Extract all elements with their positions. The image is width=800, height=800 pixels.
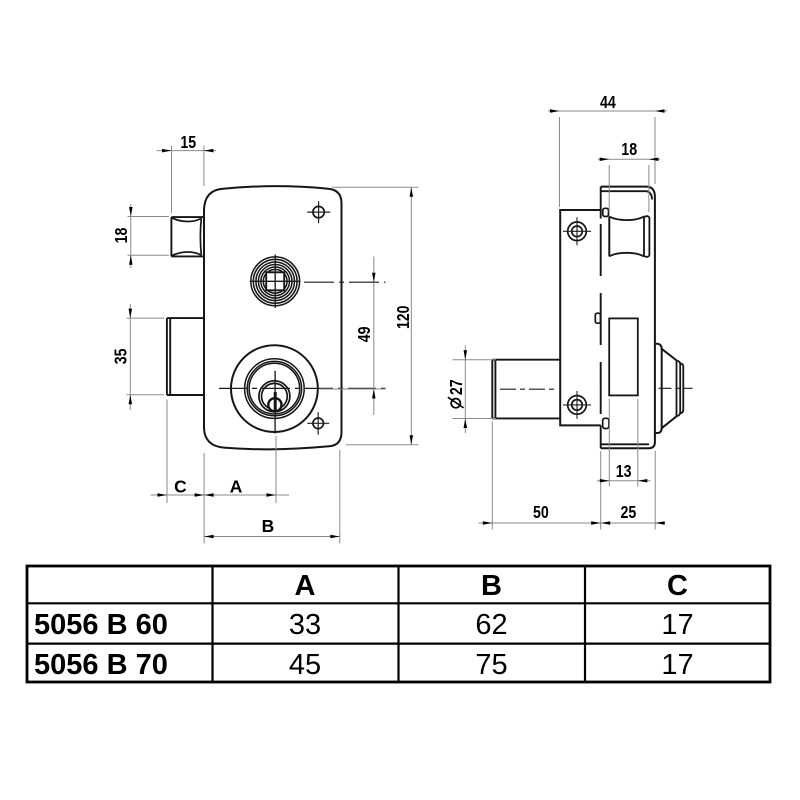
svg-text:B: B: [481, 570, 502, 602]
knob: [655, 344, 662, 433]
dim 50/25: [479, 522, 666, 524]
dim d27: [464, 346, 466, 434]
120 arrows (inside): [410, 187, 414, 197]
mid tab: [595, 313, 600, 323]
roller: [608, 217, 610, 257]
svg-text:45: 45: [289, 649, 321, 681]
d27 arrows (outside): [464, 350, 468, 360]
cylinder rosette circles: [231, 345, 318, 432]
dim 49 lines: [373, 257, 375, 416]
dim B line: [204, 536, 340, 538]
svg-text:44: 44: [600, 92, 616, 112]
svg-text:17: 17: [661, 649, 693, 681]
svg-text:120: 120: [393, 306, 413, 330]
svg-text:25: 25: [621, 502, 637, 522]
svg-text:35: 35: [110, 348, 130, 364]
svg-text:27: 27: [446, 379, 466, 395]
cylinder tube: [492, 360, 560, 419]
C arrows: [158, 493, 168, 497]
labels right view: [446, 92, 637, 522]
screw hole bottom-right: [313, 418, 324, 429]
table column dividers: [213, 566, 586, 682]
spindle crosshair: [250, 255, 301, 309]
svg-text:B: B: [262, 516, 275, 536]
dim 18: [598, 158, 660, 160]
svg-text:62: 62: [475, 609, 507, 641]
svg-text:A: A: [230, 476, 243, 496]
svg-text:13: 13: [616, 461, 632, 481]
keyway slot: [274, 392, 277, 411]
svg-text:15: 15: [180, 132, 196, 152]
svg-text:18: 18: [111, 227, 131, 243]
B arrows: [204, 535, 214, 539]
knob spindle circles: [251, 257, 300, 306]
svg-text:75: 75: [475, 649, 507, 681]
cylinder horizontal centerline: [219, 387, 386, 389]
deadbolt (lower): [167, 318, 204, 395]
A arrows: [204, 493, 214, 497]
dim 13: [597, 480, 651, 482]
dim C/A line: [151, 494, 290, 496]
35 arrows (outside): [129, 309, 133, 319]
table row dividers: [27, 603, 770, 643]
forend left edge: [600, 187, 602, 219]
svg-text:5056 B 60: 5056 B 60: [34, 609, 168, 641]
diameter symbol slash: [448, 397, 464, 408]
screw hole top (side): [568, 222, 587, 241]
forend plate flange: [601, 187, 655, 449]
svg-text:50: 50: [533, 502, 549, 522]
lock case side: [560, 210, 601, 425]
svg-text:33: 33: [289, 609, 321, 641]
25 arrows: [601, 521, 611, 525]
screw hole bottom (side): [568, 396, 587, 415]
dim 15 lines: [172, 146, 204, 214]
svg-text:C: C: [667, 570, 688, 602]
diameter symbol circle: [451, 399, 460, 408]
top tab: [603, 208, 609, 216]
dim 18 left lines: [128, 217, 170, 256]
18 arrows (outside): [129, 207, 133, 217]
keyhole ring: [268, 398, 281, 411]
table outer border: [27, 566, 770, 682]
latch bolt (top): [171, 217, 203, 256]
dim 120 lines: [332, 187, 418, 445]
44 arrows (outside): [550, 109, 560, 113]
13 arrows (outside): [600, 479, 610, 483]
knob centerline: [659, 387, 693, 389]
cylinder vertical centerline: [274, 371, 276, 434]
50 arrows: [483, 521, 493, 525]
18 arrows (outside): [600, 157, 610, 161]
dim 35 lines: [127, 318, 165, 395]
svg-text:A: A: [295, 570, 316, 602]
dim 44: [548, 110, 667, 112]
spindle square: [266, 272, 284, 290]
screw hole top-right: [313, 206, 324, 217]
svg-text:17: 17: [661, 609, 693, 641]
bottom tab: [603, 418, 609, 428]
labels left view: [110, 132, 413, 536]
lock body outline: [204, 186, 342, 449]
svg-text:C: C: [174, 476, 187, 496]
svg-text:5056 B 70: 5056 B 70: [34, 649, 168, 681]
arrows right view: [464, 109, 665, 525]
arrows left view: [129, 149, 414, 538]
15 arrows (outside): [162, 149, 172, 153]
49 arrows (outside): [372, 273, 376, 283]
tube centerline: [500, 388, 557, 390]
svg-text:49: 49: [354, 326, 374, 342]
spindle centerline extension: [304, 281, 386, 283]
svg-text:18: 18: [621, 139, 637, 159]
bolt opening: [609, 318, 638, 395]
